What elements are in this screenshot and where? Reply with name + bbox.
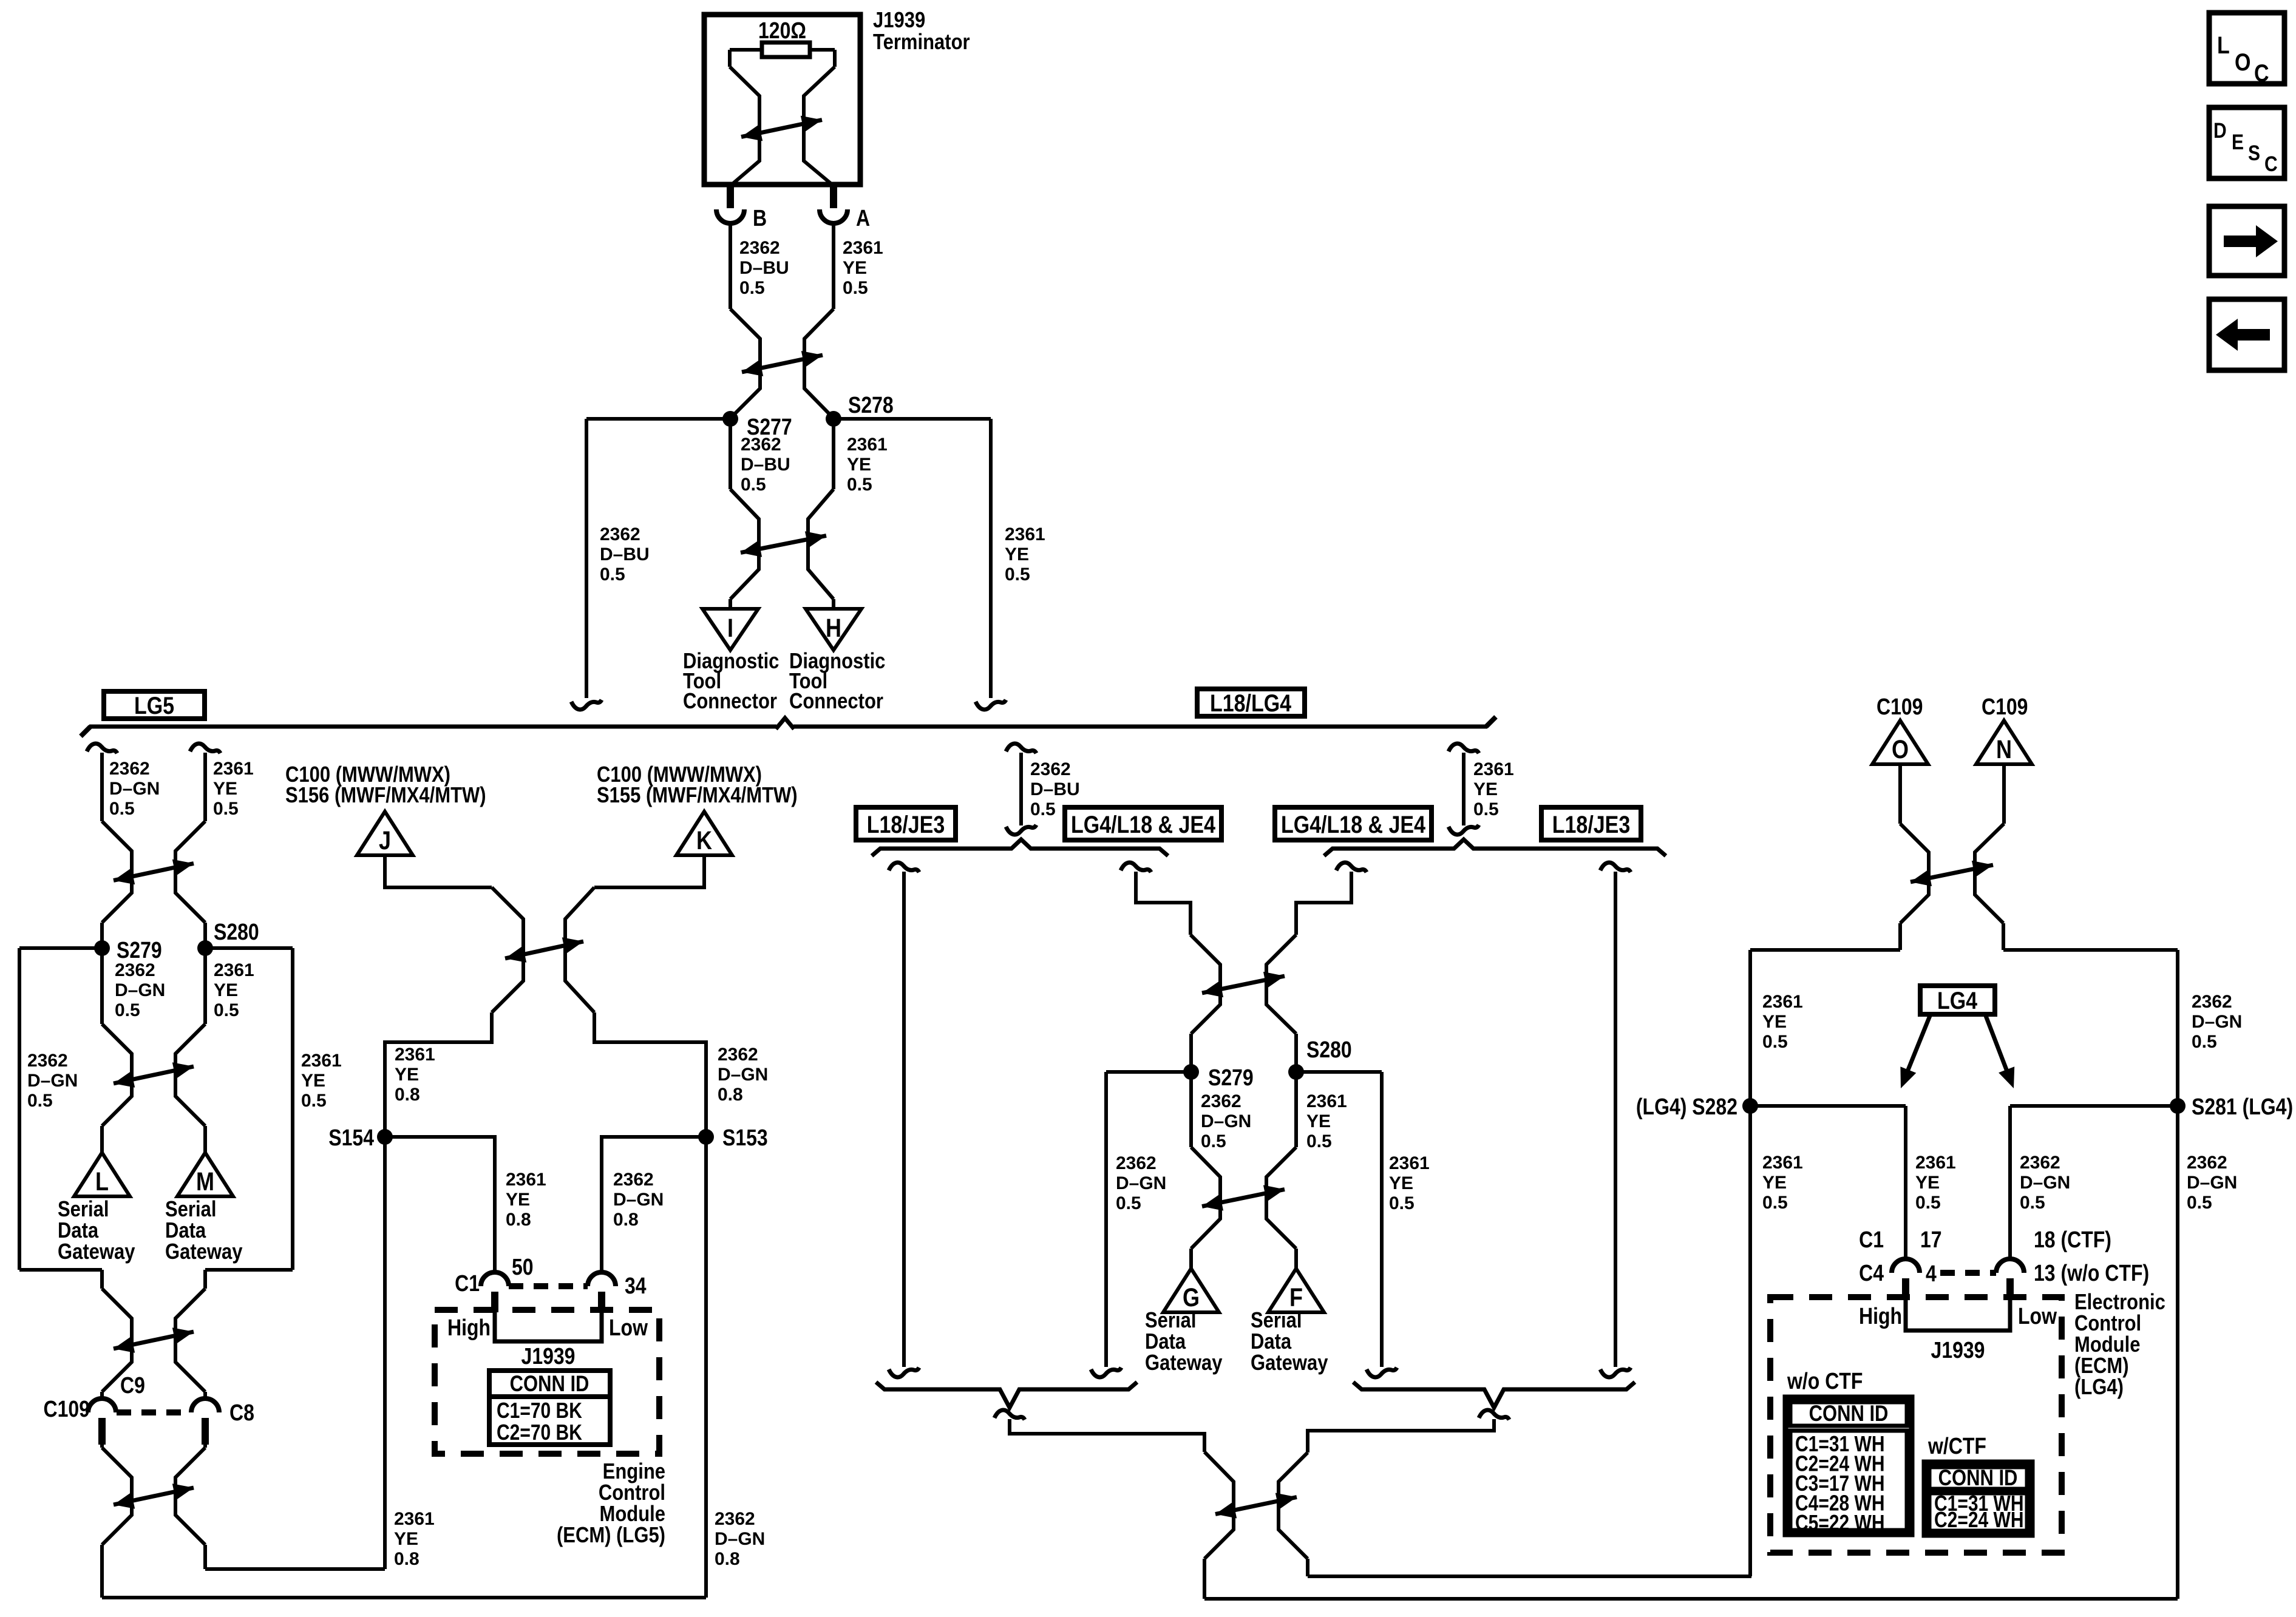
- svg-text:S154: S154: [328, 1125, 374, 1151]
- svg-text:w/CTF: w/CTF: [1927, 1434, 1986, 1459]
- svg-text:CONN ID: CONN ID: [1809, 1401, 1889, 1426]
- svg-text:L: L: [2217, 31, 2230, 58]
- svg-text:2362: 2362: [2192, 992, 2232, 1012]
- svg-text:0.8: 0.8: [715, 1549, 740, 1569]
- svg-text:2361: 2361: [301, 1051, 342, 1071]
- svg-text:S155 (MWF/MX4/MTW): S155 (MWF/MX4/MTW): [597, 784, 798, 808]
- svg-text:C1: C1: [455, 1271, 480, 1297]
- svg-text:2362: 2362: [600, 524, 640, 544]
- svg-text:0.5: 0.5: [1762, 1032, 1788, 1052]
- svg-text:2362: 2362: [1201, 1091, 1241, 1111]
- svg-text:Gateway: Gateway: [1251, 1351, 1328, 1375]
- svg-text:Control: Control: [2074, 1312, 2141, 1336]
- svg-text:D–BU: D–BU: [1030, 779, 1080, 799]
- svg-text:0.5: 0.5: [843, 278, 868, 298]
- svg-text:0.5: 0.5: [301, 1091, 327, 1111]
- svg-text:YE: YE: [843, 258, 867, 278]
- svg-text:C1: C1: [1859, 1227, 1884, 1253]
- svg-text:S278: S278: [848, 393, 894, 418]
- svg-text:LG4/L18 & JE4: LG4/L18 & JE4: [1071, 810, 1215, 838]
- svg-text:Low: Low: [609, 1315, 648, 1341]
- svg-text:YE: YE: [1762, 1012, 1787, 1032]
- svg-text:2361: 2361: [847, 435, 888, 455]
- svg-text:C: C: [2254, 59, 2269, 86]
- svg-text:F: F: [1289, 1283, 1303, 1312]
- svg-text:2361: 2361: [1762, 992, 1803, 1012]
- svg-text:0.5: 0.5: [1389, 1193, 1415, 1213]
- svg-text:D–GN: D–GN: [613, 1190, 664, 1210]
- svg-text:D: D: [2213, 118, 2227, 143]
- svg-text:Connector: Connector: [789, 690, 883, 714]
- svg-text:0.8: 0.8: [506, 1210, 531, 1230]
- svg-text:S156 (MWF/MX4/MTW): S156 (MWF/MX4/MTW): [285, 784, 486, 808]
- svg-text:2361: 2361: [1389, 1153, 1430, 1173]
- svg-text:YE: YE: [1473, 779, 1498, 799]
- svg-text:Serial: Serial: [165, 1198, 216, 1222]
- svg-text:D–BU: D–BU: [741, 455, 790, 475]
- svg-text:CONN ID: CONN ID: [1938, 1465, 2018, 1490]
- svg-text:L18/JE3: L18/JE3: [1552, 810, 1630, 838]
- svg-text:L18/JE3: L18/JE3: [867, 810, 945, 838]
- svg-text:M: M: [196, 1167, 214, 1196]
- svg-text:2361: 2361: [1306, 1091, 1347, 1111]
- svg-text:D–GN: D–GN: [715, 1529, 765, 1549]
- svg-text:D–BU: D–BU: [739, 258, 789, 278]
- svg-text:Gateway: Gateway: [1145, 1351, 1223, 1375]
- svg-text:2362: 2362: [613, 1170, 654, 1190]
- svg-text:C109: C109: [1982, 694, 2028, 720]
- svg-text:High: High: [447, 1315, 491, 1341]
- svg-text:C: C: [2264, 152, 2278, 176]
- svg-text:YE: YE: [1005, 544, 1029, 564]
- svg-text:2362: 2362: [27, 1051, 68, 1071]
- svg-text:Serial: Serial: [58, 1198, 109, 1222]
- svg-text:YE: YE: [1306, 1111, 1331, 1131]
- svg-text:0.8: 0.8: [718, 1085, 743, 1105]
- svg-text:D–GN: D–GN: [109, 779, 160, 799]
- svg-text:2362: 2362: [2020, 1153, 2060, 1173]
- svg-text:J1939: J1939: [1931, 1338, 1985, 1363]
- svg-text:D–GN: D–GN: [1116, 1173, 1166, 1193]
- svg-text:0.5: 0.5: [2187, 1193, 2212, 1213]
- svg-text:J1939: J1939: [521, 1344, 576, 1369]
- svg-text:C1=70 BK: C1=70 BK: [497, 1398, 582, 1423]
- svg-text:0.5: 0.5: [2192, 1032, 2217, 1052]
- svg-text:J1939: J1939: [873, 8, 925, 33]
- svg-text:S280: S280: [214, 920, 259, 945]
- svg-text:E: E: [2232, 130, 2244, 154]
- svg-text:Module: Module: [600, 1502, 665, 1527]
- svg-text:Data: Data: [165, 1219, 206, 1243]
- svg-text:0.5: 0.5: [27, 1091, 53, 1111]
- svg-text:2361: 2361: [843, 238, 883, 258]
- svg-text:0.5: 0.5: [739, 278, 765, 298]
- svg-text:0.5: 0.5: [115, 1000, 140, 1020]
- svg-text:Low: Low: [2018, 1304, 2057, 1329]
- svg-text:0.5: 0.5: [741, 475, 766, 495]
- svg-text:Terminator: Terminator: [873, 30, 970, 55]
- svg-text:Data: Data: [1145, 1330, 1186, 1354]
- svg-text:S280: S280: [1306, 1037, 1352, 1063]
- svg-text:H: H: [826, 614, 841, 642]
- svg-text:2361: 2361: [1473, 759, 1514, 779]
- svg-text:Serial: Serial: [1251, 1309, 1302, 1333]
- svg-text:(ECM): (ECM): [2074, 1354, 2129, 1378]
- svg-text:D–BU: D–BU: [600, 544, 650, 564]
- svg-text:(LG4) S282: (LG4) S282: [1636, 1094, 1737, 1120]
- svg-text:Gateway: Gateway: [58, 1240, 135, 1264]
- svg-text:I: I: [727, 614, 733, 642]
- svg-text:J: J: [379, 826, 391, 855]
- svg-text:2361: 2361: [213, 759, 254, 779]
- svg-text:4: 4: [1926, 1261, 1937, 1287]
- svg-text:Data: Data: [58, 1219, 98, 1243]
- svg-text:S: S: [2248, 141, 2260, 165]
- svg-text:S279: S279: [1208, 1065, 1254, 1091]
- svg-text:YE: YE: [394, 1529, 418, 1549]
- svg-text:YE: YE: [847, 455, 871, 475]
- svg-text:w/o CTF: w/o CTF: [1787, 1369, 1863, 1394]
- svg-text:Engine: Engine: [603, 1460, 665, 1484]
- svg-text:0.5: 0.5: [214, 1000, 239, 1020]
- svg-text:D–GN: D–GN: [718, 1065, 768, 1085]
- svg-text:C2=70 BK: C2=70 BK: [497, 1420, 582, 1445]
- svg-text:0.5: 0.5: [1915, 1193, 1941, 1213]
- svg-text:0.5: 0.5: [1005, 564, 1030, 585]
- svg-text:C2=24 WH: C2=24 WH: [1934, 1508, 2024, 1532]
- svg-text:0.5: 0.5: [1201, 1131, 1226, 1151]
- svg-text:2362: 2362: [1030, 759, 1071, 779]
- svg-text:S279: S279: [117, 938, 162, 963]
- svg-text:YE: YE: [213, 779, 237, 799]
- svg-text:2362: 2362: [718, 1045, 758, 1065]
- svg-text:D–GN: D–GN: [115, 980, 165, 1000]
- svg-text:N: N: [1996, 735, 2012, 764]
- svg-text:0.5: 0.5: [1306, 1131, 1332, 1151]
- svg-text:0.5: 0.5: [1116, 1193, 1141, 1213]
- svg-text:C109: C109: [1877, 694, 1923, 720]
- svg-text:Module: Module: [2074, 1333, 2140, 1357]
- svg-text:A: A: [856, 206, 870, 231]
- svg-text:2361: 2361: [1915, 1153, 1956, 1173]
- svg-text:YE: YE: [214, 980, 238, 1000]
- svg-text:LG5: LG5: [134, 691, 174, 719]
- svg-text:2362: 2362: [115, 960, 155, 980]
- svg-text:C8: C8: [229, 1400, 254, 1426]
- svg-text:0.5: 0.5: [1762, 1193, 1788, 1213]
- svg-text:K: K: [696, 826, 713, 855]
- svg-text:(LG4): (LG4): [2074, 1375, 2124, 1400]
- svg-text:C5=22 WH: C5=22 WH: [1795, 1511, 1885, 1535]
- svg-text:YE: YE: [301, 1071, 325, 1091]
- svg-text:LG4/L18 & JE4: LG4/L18 & JE4: [1281, 810, 1425, 838]
- svg-text:L: L: [95, 1167, 109, 1196]
- svg-text:2361: 2361: [1005, 524, 1045, 544]
- svg-text:0.5: 0.5: [847, 475, 872, 495]
- svg-text:2362: 2362: [741, 435, 781, 455]
- svg-text:YE: YE: [1762, 1173, 1787, 1193]
- svg-text:0.8: 0.8: [394, 1549, 419, 1569]
- svg-text:O: O: [2235, 48, 2250, 75]
- svg-text:50: 50: [512, 1255, 534, 1280]
- svg-text:YE: YE: [1389, 1173, 1413, 1193]
- svg-text:34: 34: [625, 1273, 647, 1299]
- svg-text:G: G: [1183, 1283, 1200, 1312]
- svg-text:D–GN: D–GN: [2192, 1012, 2242, 1032]
- svg-text:0.5: 0.5: [600, 564, 625, 585]
- svg-text:0.5: 0.5: [213, 799, 239, 819]
- svg-text:0.8: 0.8: [613, 1210, 639, 1230]
- svg-text:C109: C109: [44, 1397, 90, 1422]
- svg-text:2361: 2361: [506, 1170, 546, 1190]
- svg-text:2361: 2361: [394, 1509, 435, 1529]
- svg-text:2362: 2362: [2187, 1153, 2227, 1173]
- svg-text:Connector: Connector: [683, 690, 777, 714]
- svg-text:D–GN: D–GN: [1201, 1111, 1251, 1131]
- svg-text:18 (CTF): 18 (CTF): [2034, 1227, 2111, 1253]
- svg-text:C9: C9: [120, 1373, 145, 1398]
- svg-text:Serial: Serial: [1145, 1309, 1196, 1333]
- svg-text:YE: YE: [506, 1190, 530, 1210]
- svg-text:YE: YE: [395, 1065, 419, 1085]
- svg-text:C4: C4: [1859, 1261, 1884, 1286]
- svg-text:Control: Control: [599, 1481, 665, 1505]
- svg-text:D–GN: D–GN: [2020, 1173, 2070, 1193]
- svg-text:Data: Data: [1251, 1330, 1291, 1354]
- svg-text:2362: 2362: [739, 238, 780, 258]
- svg-text:High: High: [1859, 1304, 1902, 1329]
- svg-text:0.8: 0.8: [395, 1085, 420, 1105]
- svg-text:13 (w/o CTF): 13 (w/o CTF): [2034, 1261, 2149, 1286]
- svg-text:D–GN: D–GN: [2187, 1173, 2237, 1193]
- svg-text:0.5: 0.5: [109, 799, 135, 819]
- svg-text:2361: 2361: [214, 960, 254, 980]
- svg-text:YE: YE: [1915, 1173, 1940, 1193]
- svg-text:2362: 2362: [109, 759, 150, 779]
- svg-text:2361: 2361: [395, 1045, 435, 1065]
- svg-text:S281 (LG4): S281 (LG4): [2192, 1094, 2293, 1120]
- svg-text:O: O: [1892, 735, 1909, 764]
- svg-text:LG4: LG4: [1937, 986, 1977, 1014]
- svg-text:D–GN: D–GN: [27, 1071, 78, 1091]
- svg-text:120Ω: 120Ω: [758, 18, 806, 44]
- svg-text:CONN ID: CONN ID: [510, 1371, 589, 1396]
- svg-text:(ECM) (LG5): (ECM) (LG5): [557, 1524, 665, 1548]
- svg-text:S153: S153: [722, 1125, 768, 1151]
- svg-text:2361: 2361: [1762, 1153, 1803, 1173]
- svg-text:2362: 2362: [715, 1509, 755, 1529]
- svg-text:Gateway: Gateway: [165, 1240, 243, 1264]
- svg-text:0.5: 0.5: [1030, 799, 1056, 819]
- svg-text:L18/LG4: L18/LG4: [1210, 689, 1291, 716]
- svg-text:17: 17: [1920, 1227, 1942, 1253]
- svg-text:2362: 2362: [1116, 1153, 1156, 1173]
- svg-text:0.5: 0.5: [2020, 1193, 2045, 1213]
- svg-text:B: B: [753, 206, 767, 231]
- svg-text:0.5: 0.5: [1473, 799, 1499, 819]
- svg-text:Electronic: Electronic: [2074, 1290, 2165, 1315]
